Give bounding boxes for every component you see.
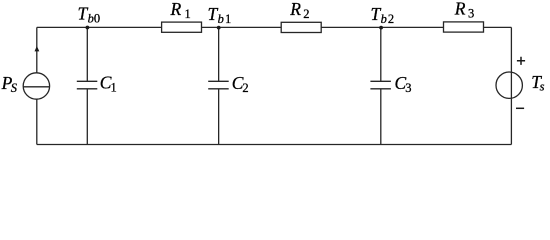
svg-text:b2: b2 [381, 12, 395, 26]
svg-text:1: 1 [111, 81, 117, 95]
svg-text:3: 3 [468, 7, 474, 21]
svg-text:R: R [454, 0, 466, 19]
svg-text:2: 2 [303, 7, 309, 21]
svg-text:R: R [289, 0, 301, 19]
svg-text:1: 1 [185, 7, 191, 21]
svg-text:S: S [11, 81, 18, 95]
svg-text:b0: b0 [88, 12, 101, 26]
svg-text:b1: b1 [218, 12, 232, 26]
svg-text:s: s [540, 80, 545, 94]
svg-text:R: R [170, 0, 182, 19]
svg-text:2: 2 [242, 81, 248, 95]
svg-text:3: 3 [405, 81, 411, 95]
